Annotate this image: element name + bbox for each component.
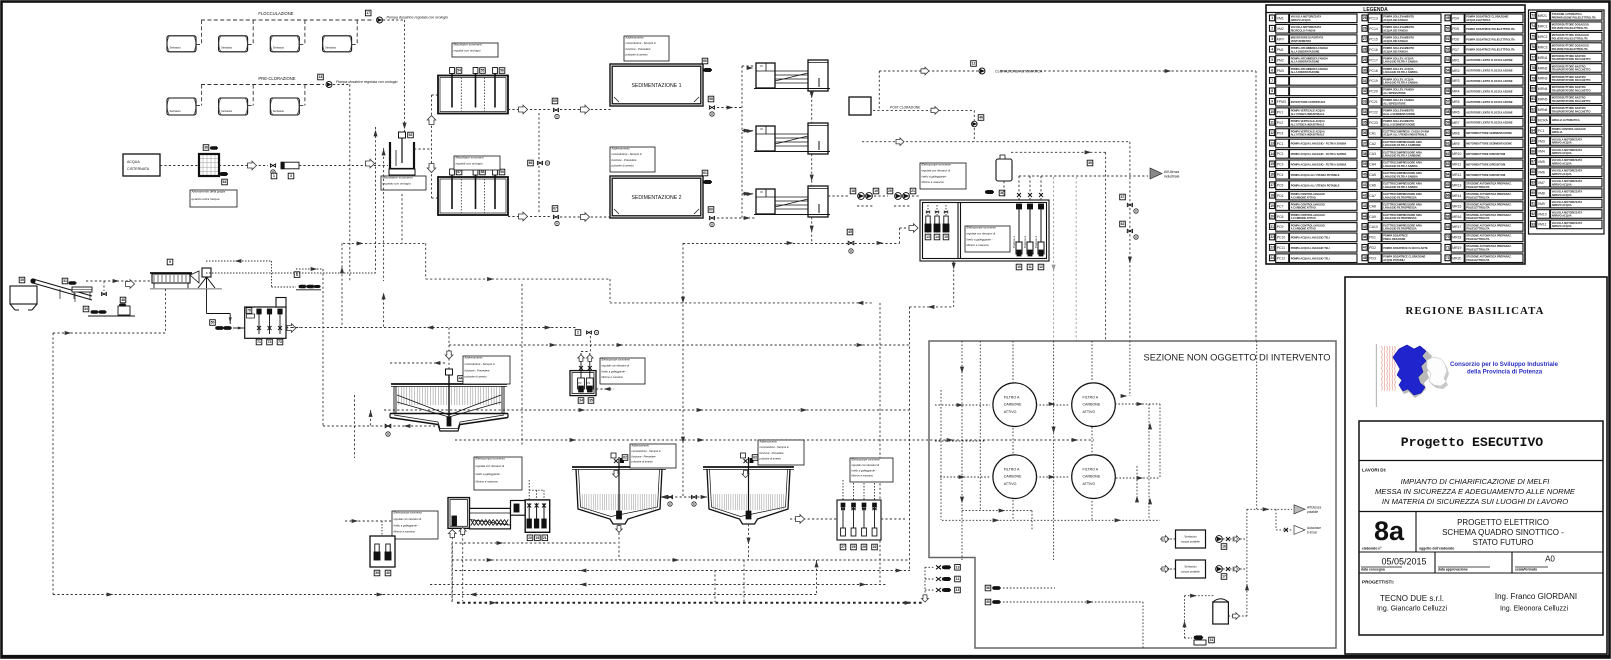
svg-text:50: 50 <box>1446 27 1450 31</box>
svg-text:PC19: PC19 <box>1369 79 1378 83</box>
svg-text:56: 56 <box>500 69 504 73</box>
svg-text:56: 56 <box>1446 89 1450 93</box>
svg-text:POLIELETTROLITA: POLIELETTROLITA <box>1466 206 1489 210</box>
svg-text:42: 42 <box>1363 194 1367 198</box>
svg-text:16: 16 <box>1270 173 1274 177</box>
svg-text:VM3: VM3 <box>1538 139 1545 143</box>
svg-text:POLIELETTROLITA: POLIELETTROLITA <box>1466 258 1489 262</box>
svg-text:59: 59 <box>1446 121 1450 125</box>
svg-text:PM1: PM1 <box>1277 48 1284 52</box>
svg-text:RICIRCOLO FANGHI: RICIRCOLO FANGHI <box>1291 28 1316 32</box>
svg-text:CARBONE: CARBONE <box>1004 403 1022 407</box>
svg-text:FPM3: FPM3 <box>1277 100 1286 104</box>
svg-text:motoriduttore - Sempre in: motoriduttore - Sempre in <box>760 445 790 449</box>
svg-text:62: 62 <box>623 456 627 460</box>
svg-text:regolata con rilevatori di: regolata con rilevatori di <box>476 464 505 468</box>
svg-text:ACQUA DEI FANGHI: ACQUA DEI FANGHI <box>1383 49 1408 53</box>
svg-text:39: 39 <box>1363 162 1367 166</box>
svg-text:MRN1: MRN1 <box>1538 56 1548 60</box>
svg-text:58: 58 <box>709 97 713 101</box>
svg-text:GRIGLIA: GRIGLIA <box>1552 130 1563 134</box>
svg-text:40: 40 <box>1363 173 1367 177</box>
svg-text:M: M <box>711 112 713 116</box>
svg-text:livello a galleggiante -: livello a galleggiante - <box>394 523 419 527</box>
svg-text:36: 36 <box>986 586 990 590</box>
svg-text:85: 85 <box>1531 139 1535 143</box>
svg-text:ARRIVO ACQUA: ARRIVO ACQUA <box>1552 224 1572 228</box>
svg-text:regolate con rilevatori di: regolate con rilevatori di <box>967 231 996 235</box>
svg-text:MR19: MR19 <box>1452 246 1461 250</box>
svg-text:43: 43 <box>1363 204 1367 208</box>
svg-text:Addensamento: Addensamento <box>464 356 484 360</box>
svg-text:LAVAGGIO FILTROPRESSA: LAVAGGIO FILTROPRESSA <box>1383 216 1417 220</box>
svg-text:52: 52 <box>409 133 413 137</box>
svg-text:20: 20 <box>528 536 532 540</box>
svg-text:A CARBONE ATTIVO: A CARBONE ATTIVO <box>1291 206 1316 210</box>
svg-text:44: 44 <box>459 377 463 381</box>
svg-text:pulsante di arresto: pulsante di arresto <box>611 163 635 167</box>
svg-text:55: 55 <box>1446 79 1450 83</box>
svg-text:MR4: MR4 <box>1452 90 1459 94</box>
svg-text:6: 6 <box>1271 68 1273 72</box>
svg-text:regolato con orologio: regolato con orologio <box>383 181 411 185</box>
svg-text:POMPA ACQUA ALL'UTENZA POTABIL: POMPA ACQUA ALL'UTENZA POTABILE <box>1291 183 1340 187</box>
svg-text:CARBONE: CARBONE <box>1083 475 1101 479</box>
svg-text:74: 74 <box>1531 24 1535 28</box>
svg-text:Consorzio per lo Sviluppo Indu: Consorzio per lo Sviluppo Industriale <box>1450 361 1559 368</box>
svg-text:VENTURIMETRO: VENTURIMETRO <box>1291 39 1311 43</box>
svg-text:LAVAGGIO FILTROPRESSA: LAVAGGIO FILTROPRESSA <box>1383 227 1417 231</box>
svg-text:TRASPORTATORE PACCHETTO: TRASPORTATORE PACCHETTO <box>1552 89 1591 93</box>
svg-text:61: 61 <box>1446 141 1450 145</box>
svg-text:M: M <box>693 502 695 506</box>
svg-text:35: 35 <box>1363 121 1367 125</box>
svg-text:51: 51 <box>1446 37 1450 41</box>
svg-text:All'Utenza: All'Utenza <box>1307 505 1321 509</box>
svg-text:MR18: MR18 <box>1452 236 1461 240</box>
svg-text:91: 91 <box>1531 201 1535 205</box>
svg-text:73: 73 <box>1531 14 1535 18</box>
svg-text:58: 58 <box>481 170 485 174</box>
svg-text:PC13: PC13 <box>1369 17 1378 21</box>
svg-text:VM8: VM8 <box>1538 191 1545 195</box>
svg-text:70: 70 <box>1446 235 1450 239</box>
svg-text:19: 19 <box>1270 204 1274 208</box>
svg-text:POLVERE POLIELETTROLITA: POLVERE POLIELETTROLITA <box>1552 36 1588 40</box>
svg-text:12: 12 <box>1039 265 1043 269</box>
svg-text:MR6: MR6 <box>1452 110 1459 114</box>
svg-text:regolate con rilevatori di: regolate con rilevatori di <box>394 517 422 521</box>
svg-text:Pompa dosatrice regolata con o: Pompa dosatrice regolata con orologio <box>387 16 449 20</box>
svg-text:55: 55 <box>481 69 485 73</box>
svg-text:MRN4: MRN4 <box>1538 87 1548 91</box>
svg-text:Minimo e massimo: Minimo e massimo <box>394 530 416 534</box>
svg-text:PD4: PD4 <box>1452 17 1459 21</box>
svg-text:38: 38 <box>204 146 208 150</box>
svg-text:livello a galleggiante -: livello a galleggiante - <box>922 174 948 178</box>
svg-text:83: 83 <box>1531 118 1535 122</box>
svg-text:AGITATORE LENTO FLOCCULAZIONE: AGITATORE LENTO FLOCCULAZIONE <box>1466 110 1513 114</box>
svg-text:CA9: CA9 <box>1369 215 1376 219</box>
svg-text:52: 52 <box>1446 47 1450 51</box>
svg-text:FILTRO A: FILTRO A <box>1083 468 1099 472</box>
svg-text:MPV: MPV <box>1277 37 1285 41</box>
svg-text:quando entra l'acqua: quando entra l'acqua <box>192 197 220 201</box>
svg-text:ATTIVO: ATTIVO <box>1083 482 1096 486</box>
svg-text:21: 21 <box>543 536 547 540</box>
svg-text:P2: P2 <box>578 381 582 385</box>
svg-text:11: 11 <box>1028 265 1032 269</box>
svg-text:14: 14 <box>1270 152 1274 156</box>
svg-text:POMPA ACQUA LAVAGGIO - FILTRI: POMPA ACQUA LAVAGGIO - FILTRI A SABBIA <box>1291 152 1347 156</box>
svg-text:67: 67 <box>553 207 557 211</box>
svg-text:Elettropompe sommerse: Elettropompe sommerse <box>922 163 952 167</box>
svg-text:All'Utenza: All'Utenza <box>1164 170 1179 174</box>
svg-text:35: 35 <box>589 399 593 403</box>
svg-text:MOTORIDUTTORE ISPESSITORI: MOTORIDUTTORE ISPESSITORI <box>1466 173 1505 177</box>
svg-text:M: M <box>546 161 548 165</box>
svg-text:26: 26 <box>1363 27 1367 31</box>
svg-text:PREPARAZIONE POLIELETTROLITA: PREPARAZIONE POLIELETTROLITA <box>1552 16 1596 20</box>
svg-text:ACQUE POTABILI: ACQUE POTABILI <box>1383 258 1405 262</box>
svg-text:13: 13 <box>926 235 930 239</box>
svg-text:LAVORI DI:: LAVORI DI: <box>1362 468 1387 473</box>
svg-text:84: 84 <box>1531 128 1535 132</box>
svg-text:58: 58 <box>1446 110 1450 114</box>
svg-text:STATO FUTURO: STATO FUTURO <box>1473 538 1534 547</box>
svg-text:64: 64 <box>1446 173 1450 177</box>
svg-text:livello a galleggiante -: livello a galleggiante - <box>852 468 877 472</box>
svg-text:Serbatoio: Serbatoio <box>170 109 182 113</box>
svg-text:49: 49 <box>1446 16 1450 20</box>
svg-text:14: 14 <box>935 235 939 239</box>
svg-text:Minimo e massimo: Minimo e massimo <box>476 479 499 483</box>
svg-text:Ing. Franco GIORDANI: Ing. Franco GIORDANI <box>1495 592 1577 601</box>
svg-text:ALLA DISIDRATAZIONE: ALLA DISIDRATAZIONE <box>1291 70 1320 74</box>
svg-text:ACQUA: ACQUA <box>127 160 140 164</box>
svg-text:ALL'UTENZA INDUSTRIALE: ALL'UTENZA INDUSTRIALE <box>1291 133 1325 137</box>
svg-text:18: 18 <box>1270 194 1274 198</box>
svg-text:POMPA ACQUA LAVAGGIO TELI: POMPA ACQUA LAVAGGIO TELI <box>1291 246 1330 250</box>
svg-text:Serbatoio: Serbatoio <box>221 46 233 50</box>
svg-text:CA3: CA3 <box>1369 152 1376 156</box>
svg-text:pulsante di arresto: pulsante di arresto <box>759 456 782 460</box>
svg-text:Minimo e massimo: Minimo e massimo <box>967 243 990 247</box>
svg-text:della Provincia di Potenza: della Provincia di Potenza <box>1467 368 1543 375</box>
svg-text:PD5: PD5 <box>1452 27 1459 31</box>
svg-text:PD2: PD2 <box>1369 246 1376 250</box>
svg-text:REGIONE BASILICATA: REGIONE BASILICATA <box>1405 305 1544 317</box>
svg-text:regolati con orologio: regolati con orologio <box>454 48 481 52</box>
svg-text:VM2: VM2 <box>1277 27 1284 31</box>
svg-text:33: 33 <box>1363 100 1367 104</box>
svg-text:63: 63 <box>1446 162 1450 166</box>
svg-text:ATTIVO: ATTIVO <box>1083 410 1096 414</box>
svg-text:34: 34 <box>84 307 88 311</box>
svg-text:PV3: PV3 <box>1277 131 1284 135</box>
svg-text:37: 37 <box>1363 141 1367 145</box>
svg-text:CA5: CA5 <box>1369 173 1376 177</box>
svg-text:24: 24 <box>1270 256 1274 260</box>
svg-text:81: 81 <box>1531 97 1535 101</box>
svg-text:POMPA DOSATRICE POLIELETTROLIT: POMPA DOSATRICE POLIELETTROLITA <box>1466 37 1515 41</box>
svg-text:LAVAGGIO FILTRI A SABBIA: LAVAGGIO FILTRI A SABBIA <box>1383 164 1418 168</box>
svg-text:79: 79 <box>1531 76 1535 80</box>
svg-text:ATTIVO: ATTIVO <box>1004 410 1017 414</box>
svg-text:57: 57 <box>1446 100 1450 104</box>
svg-text:AGITATORE LENTO FLOCCULAZIONE: AGITATORE LENTO FLOCCULAZIONE <box>1466 58 1513 62</box>
svg-text:ACQUA DEI FANGHI: ACQUA DEI FANGHI <box>1383 28 1408 32</box>
svg-text:CARBONE: CARBONE <box>1083 403 1101 407</box>
svg-text:PC2: PC2 <box>1277 152 1284 156</box>
svg-text:PC14: PC14 <box>1369 27 1378 31</box>
svg-text:20: 20 <box>888 189 892 193</box>
svg-text:ALLA DISIDRATAZIONE: ALLA DISIDRATAZIONE <box>1291 49 1320 53</box>
svg-text:LAVAGGIO FILTRI A CARBONE: LAVAGGIO FILTRI A CARBONE <box>1383 154 1421 158</box>
svg-text:M: M <box>850 249 852 253</box>
svg-text:60: 60 <box>703 59 707 63</box>
svg-text:48: 48 <box>1363 256 1367 260</box>
svg-text:MRN2: MRN2 <box>1538 66 1548 70</box>
svg-text:Elettropompe sommerse: Elettropompe sommerse <box>602 358 631 362</box>
svg-text:19: 19 <box>874 189 878 193</box>
svg-text:13: 13 <box>956 566 960 570</box>
svg-text:Minimo e massimo: Minimo e massimo <box>922 180 945 184</box>
svg-text:27: 27 <box>841 545 845 549</box>
svg-text:8: 8 <box>1271 89 1273 93</box>
svg-text:ARRIVO ACQUA: ARRIVO ACQUA <box>1291 18 1311 22</box>
svg-text:11: 11 <box>1270 121 1274 125</box>
svg-text:7: 7 <box>1271 79 1273 83</box>
svg-text:31: 31 <box>1363 79 1367 83</box>
svg-text:86: 86 <box>1531 149 1535 153</box>
svg-text:AGITATORE LENTO FLOCCULAZIONE: AGITATORE LENTO FLOCCULAZIONE <box>1466 69 1513 73</box>
svg-text:AGITATORE LENTO FLOCCULAZIONE: AGITATORE LENTO FLOCCULAZIONE <box>1466 89 1513 93</box>
svg-text:ARRIVO ACQUA: ARRIVO ACQUA <box>1552 151 1572 155</box>
svg-text:MR7: MR7 <box>1452 121 1459 125</box>
svg-text:5: 5 <box>1271 58 1273 62</box>
svg-text:M: M <box>711 223 713 227</box>
svg-text:PM2: PM2 <box>1277 58 1284 62</box>
svg-text:POMPA ACQUA LAVAGGIO - FILTRI: POMPA ACQUA LAVAGGIO - FILTRI A SABBIA <box>1291 142 1347 146</box>
svg-text:PV2: PV2 <box>1277 121 1284 125</box>
svg-text:acqua potabile: acqua potabile <box>1181 540 1200 544</box>
svg-text:Autoclave: Autoclave <box>1307 526 1321 530</box>
svg-text:69: 69 <box>1446 225 1450 229</box>
svg-text:regolate con rilevatori di: regolate con rilevatori di <box>602 363 630 367</box>
svg-text:VM11: VM11 <box>1538 223 1547 227</box>
svg-text:PC6: PC6 <box>1277 194 1284 198</box>
svg-text:34: 34 <box>579 399 583 403</box>
svg-text:18: 18 <box>851 189 855 193</box>
svg-text:TRASPORTATORE PACCHETTO: TRASPORTATORE PACCHETTO <box>1552 57 1591 61</box>
svg-text:MOTORIDUTTORE SEDIMENTAZIONE: MOTORIDUTTORE SEDIMENTAZIONE <box>1466 131 1512 135</box>
svg-text:Elettropompe sommerse: Elettropompe sommerse <box>967 226 997 230</box>
svg-text:ACQUA DEI FANGHI: ACQUA DEI FANGHI <box>1383 39 1408 43</box>
svg-text:34: 34 <box>1363 110 1367 114</box>
svg-text:17: 17 <box>1222 575 1226 579</box>
svg-text:1: 1 <box>273 174 275 178</box>
svg-text:DALLA SEDIMENTAZIONE: DALLA SEDIMENTAZIONE <box>1383 112 1415 116</box>
svg-text:3: 3 <box>290 174 292 178</box>
svg-text:POLIELETTROLITA: POLIELETTROLITA <box>1466 237 1489 241</box>
svg-text:Miscelatore sommerso: Miscelatore sommerso <box>383 176 414 180</box>
svg-text:72: 72 <box>1446 256 1450 260</box>
svg-text:25: 25 <box>1363 16 1367 20</box>
svg-text:MR2: MR2 <box>1452 69 1459 73</box>
svg-text:MRC2: MRC2 <box>1538 35 1548 39</box>
svg-text:A CARBONE ATTIVO: A CARBONE ATTIVO <box>1291 216 1316 220</box>
svg-text:MR20: MR20 <box>1452 256 1461 260</box>
svg-text:41: 41 <box>1363 183 1367 187</box>
svg-text:POMPA ACQUA LAVAGGIO - FILTRI: POMPA ACQUA LAVAGGIO - FILTRI A SABBIA <box>1291 162 1347 166</box>
svg-text:PD3: PD3 <box>1369 256 1376 260</box>
svg-text:MR21: MR21 <box>1538 14 1547 18</box>
svg-text:POLIELETTROLITA: POLIELETTROLITA <box>1466 195 1489 199</box>
svg-text:Addensamento: Addensamento <box>625 36 645 40</box>
svg-text:FLOCCULAZIONE: FLOCCULAZIONE <box>258 11 293 16</box>
svg-text:M: M <box>595 331 597 335</box>
svg-text:MR16: MR16 <box>1452 215 1461 219</box>
svg-text:10: 10 <box>1017 265 1021 269</box>
svg-text:Minimo e massimo: Minimo e massimo <box>852 474 874 478</box>
svg-text:44: 44 <box>1363 214 1367 218</box>
svg-text:ATTIVO: ATTIVO <box>1004 482 1017 486</box>
svg-text:PM3: PM3 <box>1277 69 1284 73</box>
svg-text:PC1: PC1 <box>1538 129 1545 133</box>
svg-text:PD6: PD6 <box>1452 37 1459 41</box>
svg-text:13: 13 <box>1270 141 1274 145</box>
svg-text:Serbatoio: Serbatoio <box>221 109 233 113</box>
svg-text:57: 57 <box>457 170 461 174</box>
svg-text:A CARBONE ATTIVO: A CARBONE ATTIVO <box>1291 195 1316 199</box>
svg-text:05/05/2015: 05/05/2015 <box>1381 557 1426 567</box>
svg-text:63: 63 <box>753 456 757 460</box>
svg-text:PC9: PC9 <box>1277 225 1284 229</box>
svg-text:funzione - Prevedere: funzione - Prevedere <box>760 451 785 455</box>
svg-text:industriale: industriale <box>1164 175 1180 179</box>
svg-text:CA8: CA8 <box>1369 204 1376 208</box>
svg-text:MR5: MR5 <box>1452 100 1459 104</box>
svg-text:PC8: PC8 <box>1277 215 1284 219</box>
svg-text:40: 40 <box>386 571 390 575</box>
svg-text:25: 25 <box>852 545 856 549</box>
svg-text:76: 76 <box>1531 45 1535 49</box>
svg-text:PC18: PC18 <box>1369 69 1378 73</box>
svg-text:19: 19 <box>536 536 540 540</box>
svg-text:PC11: PC11 <box>1277 246 1285 250</box>
svg-text:73: 73 <box>278 340 282 344</box>
svg-text:60: 60 <box>1446 131 1450 135</box>
svg-text:37: 37 <box>1121 195 1125 199</box>
svg-text:TRASPORTATORE PACCHETTO: TRASPORTATORE PACCHETTO <box>1552 99 1591 103</box>
svg-text:VM1: VM1 <box>1277 17 1284 21</box>
svg-text:IN MATERIA DI SICUREZZA SUI LU: IN MATERIA DI SICUREZZA SUI LUOGHI DI LA… <box>1382 497 1568 506</box>
svg-text:MR15: MR15 <box>1452 204 1461 208</box>
svg-text:CISTERNATA: CISTERNATA <box>127 167 150 171</box>
svg-text:PC3: PC3 <box>1277 163 1284 167</box>
svg-text:35: 35 <box>20 278 24 282</box>
svg-text:M: M <box>669 502 671 506</box>
svg-text:MR9: MR9 <box>1452 142 1459 146</box>
svg-text:motoriduttore - Sempre in: motoriduttore - Sempre in <box>632 449 662 453</box>
svg-text:regolate con rilevatori di: regolate con rilevatori di <box>922 168 951 172</box>
svg-text:PD7: PD7 <box>1452 48 1459 52</box>
svg-text:10: 10 <box>1270 110 1274 114</box>
svg-text:46: 46 <box>1363 235 1367 239</box>
svg-text:POMPA DOSATRICE FLOCCULANTE: POMPA DOSATRICE FLOCCULANTE <box>1383 246 1428 250</box>
svg-text:MR1: MR1 <box>1452 58 1459 62</box>
svg-text:11: 11 <box>956 577 960 581</box>
svg-text:IMPIANTO DI CHIARIFICAZIONE DI: IMPIANTO DI CHIARIFICAZIONE DI MELFI <box>1401 477 1551 486</box>
svg-text:78: 78 <box>1531 66 1535 70</box>
svg-text:38: 38 <box>1363 152 1367 156</box>
svg-text:PC12: PC12 <box>1277 256 1286 260</box>
svg-text:60: 60 <box>709 208 713 212</box>
svg-text:12: 12 <box>1270 131 1274 135</box>
svg-text:45: 45 <box>1363 225 1367 229</box>
svg-text:Serbatoio: Serbatoio <box>1184 535 1197 539</box>
svg-text:47: 47 <box>1363 246 1367 250</box>
svg-text:ALL'UTENZA INDUSTRIALE: ALL'UTENZA INDUSTRIALE <box>1291 112 1325 116</box>
svg-text:motoriduttore - Sempre in: motoriduttore - Sempre in <box>612 152 643 156</box>
svg-text:15: 15 <box>944 235 948 239</box>
svg-text:POLIELETTROLITA: POLIELETTROLITA <box>1466 227 1489 231</box>
svg-text:pulsante di arresto: pulsante di arresto <box>464 375 488 379</box>
svg-text:46: 46 <box>979 116 983 120</box>
svg-text:Ing. Eleonora Celluzzi: Ing. Eleonora Celluzzi <box>1500 606 1569 613</box>
svg-text:SEDIMENTAZIONE 1: SEDIMENTAZIONE 1 <box>631 83 681 89</box>
svg-text:acqua potabile: acqua potabile <box>1181 570 1200 574</box>
svg-text:data consegna: data consegna <box>1361 568 1385 572</box>
svg-text:VM4: VM4 <box>1538 150 1545 154</box>
svg-text:Serbatoio: Serbatoio <box>170 46 182 50</box>
svg-text:28: 28 <box>1363 47 1367 51</box>
svg-text:TRASPORTATORE PACCHETTO: TRASPORTATORE PACCHETTO <box>1552 78 1591 82</box>
svg-text:LAVAGGIO FILTRI A SABBIA: LAVAGGIO FILTRI A SABBIA <box>1383 185 1418 189</box>
svg-text:27: 27 <box>1363 37 1367 41</box>
svg-text:ALL'ISPESSITORE: ALL'ISPESSITORE <box>1383 91 1406 95</box>
svg-text:89: 89 <box>1531 181 1535 185</box>
svg-text:29: 29 <box>862 545 866 549</box>
svg-text:regolate con rilevatori di: regolate con rilevatori di <box>852 463 880 467</box>
svg-text:29: 29 <box>1363 58 1367 62</box>
svg-text:LAVAGGIO FILTRI A SABBIA: LAVAGGIO FILTRI A SABBIA <box>1383 60 1418 64</box>
svg-text:Pompa 3: Pompa 3 <box>1034 236 1038 248</box>
svg-text:CA7: CA7 <box>1369 194 1376 198</box>
svg-text:pulsante di arresto: pulsante di arresto <box>625 52 649 56</box>
svg-text:PC16: PC16 <box>1369 48 1378 52</box>
svg-text:pulsante di arresto: pulsante di arresto <box>631 460 654 464</box>
svg-text:PC1: PC1 <box>1277 142 1284 146</box>
svg-text:MR17: MR17 <box>1452 225 1461 229</box>
svg-text:9: 9 <box>1271 100 1273 104</box>
svg-text:ARRIVO ACQUA: ARRIVO ACQUA <box>1552 214 1572 218</box>
svg-text:MRN6: MRN6 <box>1538 108 1548 112</box>
svg-text:FILTRO A: FILTRO A <box>1004 468 1020 472</box>
svg-text:ARRIVO ACQUA: ARRIVO ACQUA <box>1552 203 1572 207</box>
svg-text:Pompa 1: Pompa 1 <box>1012 236 1016 248</box>
svg-text:ALL'UTENZA INDUSTRIALE: ALL'UTENZA INDUSTRIALE <box>1291 122 1325 126</box>
svg-text:POMPA DOSATRICE POLIELETTROLIT: POMPA DOSATRICE POLIELETTROLITA <box>1466 48 1515 52</box>
svg-text:MR14: MR14 <box>1452 194 1461 198</box>
svg-text:Elettropompa sommersa: Elettropompa sommersa <box>394 511 423 515</box>
svg-text:PROGETTISTI:: PROGETTISTI: <box>1362 580 1395 585</box>
svg-text:MRN3: MRN3 <box>1538 77 1548 81</box>
svg-text:scala/formato: scala/formato <box>1515 568 1537 572</box>
svg-text:21: 21 <box>911 189 915 193</box>
svg-text:MR11: MR11 <box>1452 163 1461 167</box>
